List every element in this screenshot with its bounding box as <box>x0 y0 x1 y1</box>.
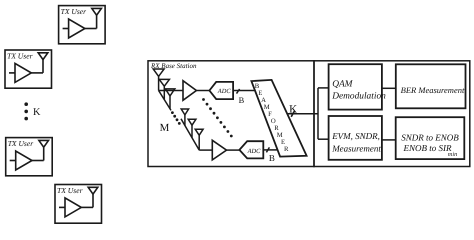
svg-text:K: K <box>289 103 297 115</box>
RX antenna 1 <box>153 69 164 91</box>
RX antenna 3 <box>165 89 175 109</box>
svg-text:Demodulation: Demodulation <box>331 91 386 101</box>
svg-text:TX User: TX User <box>7 52 33 61</box>
diagonal wire lower antenna group <box>181 119 199 150</box>
svg-text:ADC: ADC <box>217 88 232 95</box>
wire antenna6 to LNA2 <box>199 149 212 151</box>
wire beamformer to demod block (K bus) <box>287 113 318 115</box>
svg-text:R: R <box>284 146 289 153</box>
svg-text:TX User: TX User <box>8 139 34 148</box>
amplifier of TX User 3 <box>16 151 32 170</box>
branch wire to QAM <box>318 87 329 89</box>
BER Measurement block <box>396 64 466 108</box>
TX User box 3 <box>6 138 53 176</box>
RX antenna 4 <box>181 109 188 126</box>
dotted continuation (left antenna ellipsis) <box>171 111 181 125</box>
ADC 1 (top chain) <box>209 82 233 99</box>
svg-text:min: min <box>448 151 457 158</box>
LNA amplifier 1 (top chain) <box>183 81 196 101</box>
branch wire to EVM <box>318 138 329 140</box>
wire EVM to SNDR-ENOB <box>382 139 396 141</box>
wire LNA2 to ADC2 <box>227 149 240 151</box>
svg-text:ADC: ADC <box>247 148 262 155</box>
svg-text:SNDR to ENOB: SNDR to ENOB <box>401 132 459 142</box>
bus slash K <box>291 111 294 117</box>
svg-text:F: F <box>268 111 272 118</box>
diagonal wire upper antenna group <box>159 91 171 111</box>
wire LNA1 to ADC1 <box>196 90 209 92</box>
antenna of TX User 3 <box>39 140 49 147</box>
RX Base Station box <box>148 61 314 167</box>
svg-text:B: B <box>239 96 245 105</box>
RX antenna 2 <box>159 79 169 99</box>
TX User box 4 (bottom) <box>55 185 102 224</box>
ADC 2 (bottom chain) <box>239 141 263 158</box>
TX User box 1 (top) <box>59 6 106 44</box>
amplifier of TX User 2 <box>15 63 31 82</box>
svg-text:E: E <box>281 139 285 146</box>
RX antenna 6 <box>195 129 203 150</box>
svg-text:A: A <box>261 97 266 104</box>
svg-text:BER Measurement: BER Measurement <box>401 85 465 95</box>
QAM Demodulation block <box>329 64 382 109</box>
svg-text:TX User: TX User <box>57 186 83 195</box>
wires of TX User 4 <box>59 206 65 208</box>
antenna of TX User 2 <box>38 53 48 60</box>
wires of TX User 3 <box>10 160 16 162</box>
svg-text:M: M <box>277 132 283 139</box>
svg-text:EVM, SNDR,: EVM, SNDR, <box>331 131 380 141</box>
svg-text:M: M <box>264 104 270 111</box>
amplifier of TX User 4 <box>65 198 81 217</box>
svg-text:M: M <box>160 122 170 134</box>
dotted ellipsis between chains <box>202 98 233 137</box>
svg-text:E: E <box>258 90 262 97</box>
antenna of TX User 1 <box>92 8 102 15</box>
wire ADC2 to beamformer (bus) <box>263 149 277 151</box>
EVM SNDR Measurement block <box>329 116 382 160</box>
svg-text:TX User: TX User <box>61 7 87 16</box>
wires of TX User 1 <box>63 28 69 30</box>
SNDR to ENOB block <box>396 117 465 159</box>
antenna of TX User 4 <box>88 187 98 194</box>
LNA amplifier 2 (bottom chain) <box>212 140 226 160</box>
beamformer vertical lettering <box>255 83 289 153</box>
svg-text:R: R <box>274 125 279 132</box>
wire QAM to BER <box>382 87 396 89</box>
vertical ellipsis dots (K users) <box>24 102 28 120</box>
RX antenna 5 <box>188 119 196 137</box>
wire ADC1 to beamformer (bus) <box>233 90 255 92</box>
svg-text:B: B <box>255 83 260 90</box>
branch vertical wire <box>317 88 319 139</box>
bus slash B1 <box>237 89 240 94</box>
svg-text:QAM: QAM <box>332 79 353 89</box>
bus slash B2 <box>266 147 269 152</box>
wire antenna1 to LNA1 <box>159 90 183 92</box>
svg-text:O: O <box>271 118 276 125</box>
svg-text:Measurement: Measurement <box>331 143 381 153</box>
svg-text:ENOB to SIR: ENOB to SIR <box>403 143 452 153</box>
beamformer block <box>251 80 306 157</box>
svg-text:K: K <box>33 107 41 118</box>
svg-text:B: B <box>269 153 275 163</box>
amplifier of TX User 1 <box>69 19 85 38</box>
TX User box 2 <box>5 50 52 88</box>
measurement outer box <box>314 61 470 167</box>
wires of TX User 2 <box>9 72 15 74</box>
